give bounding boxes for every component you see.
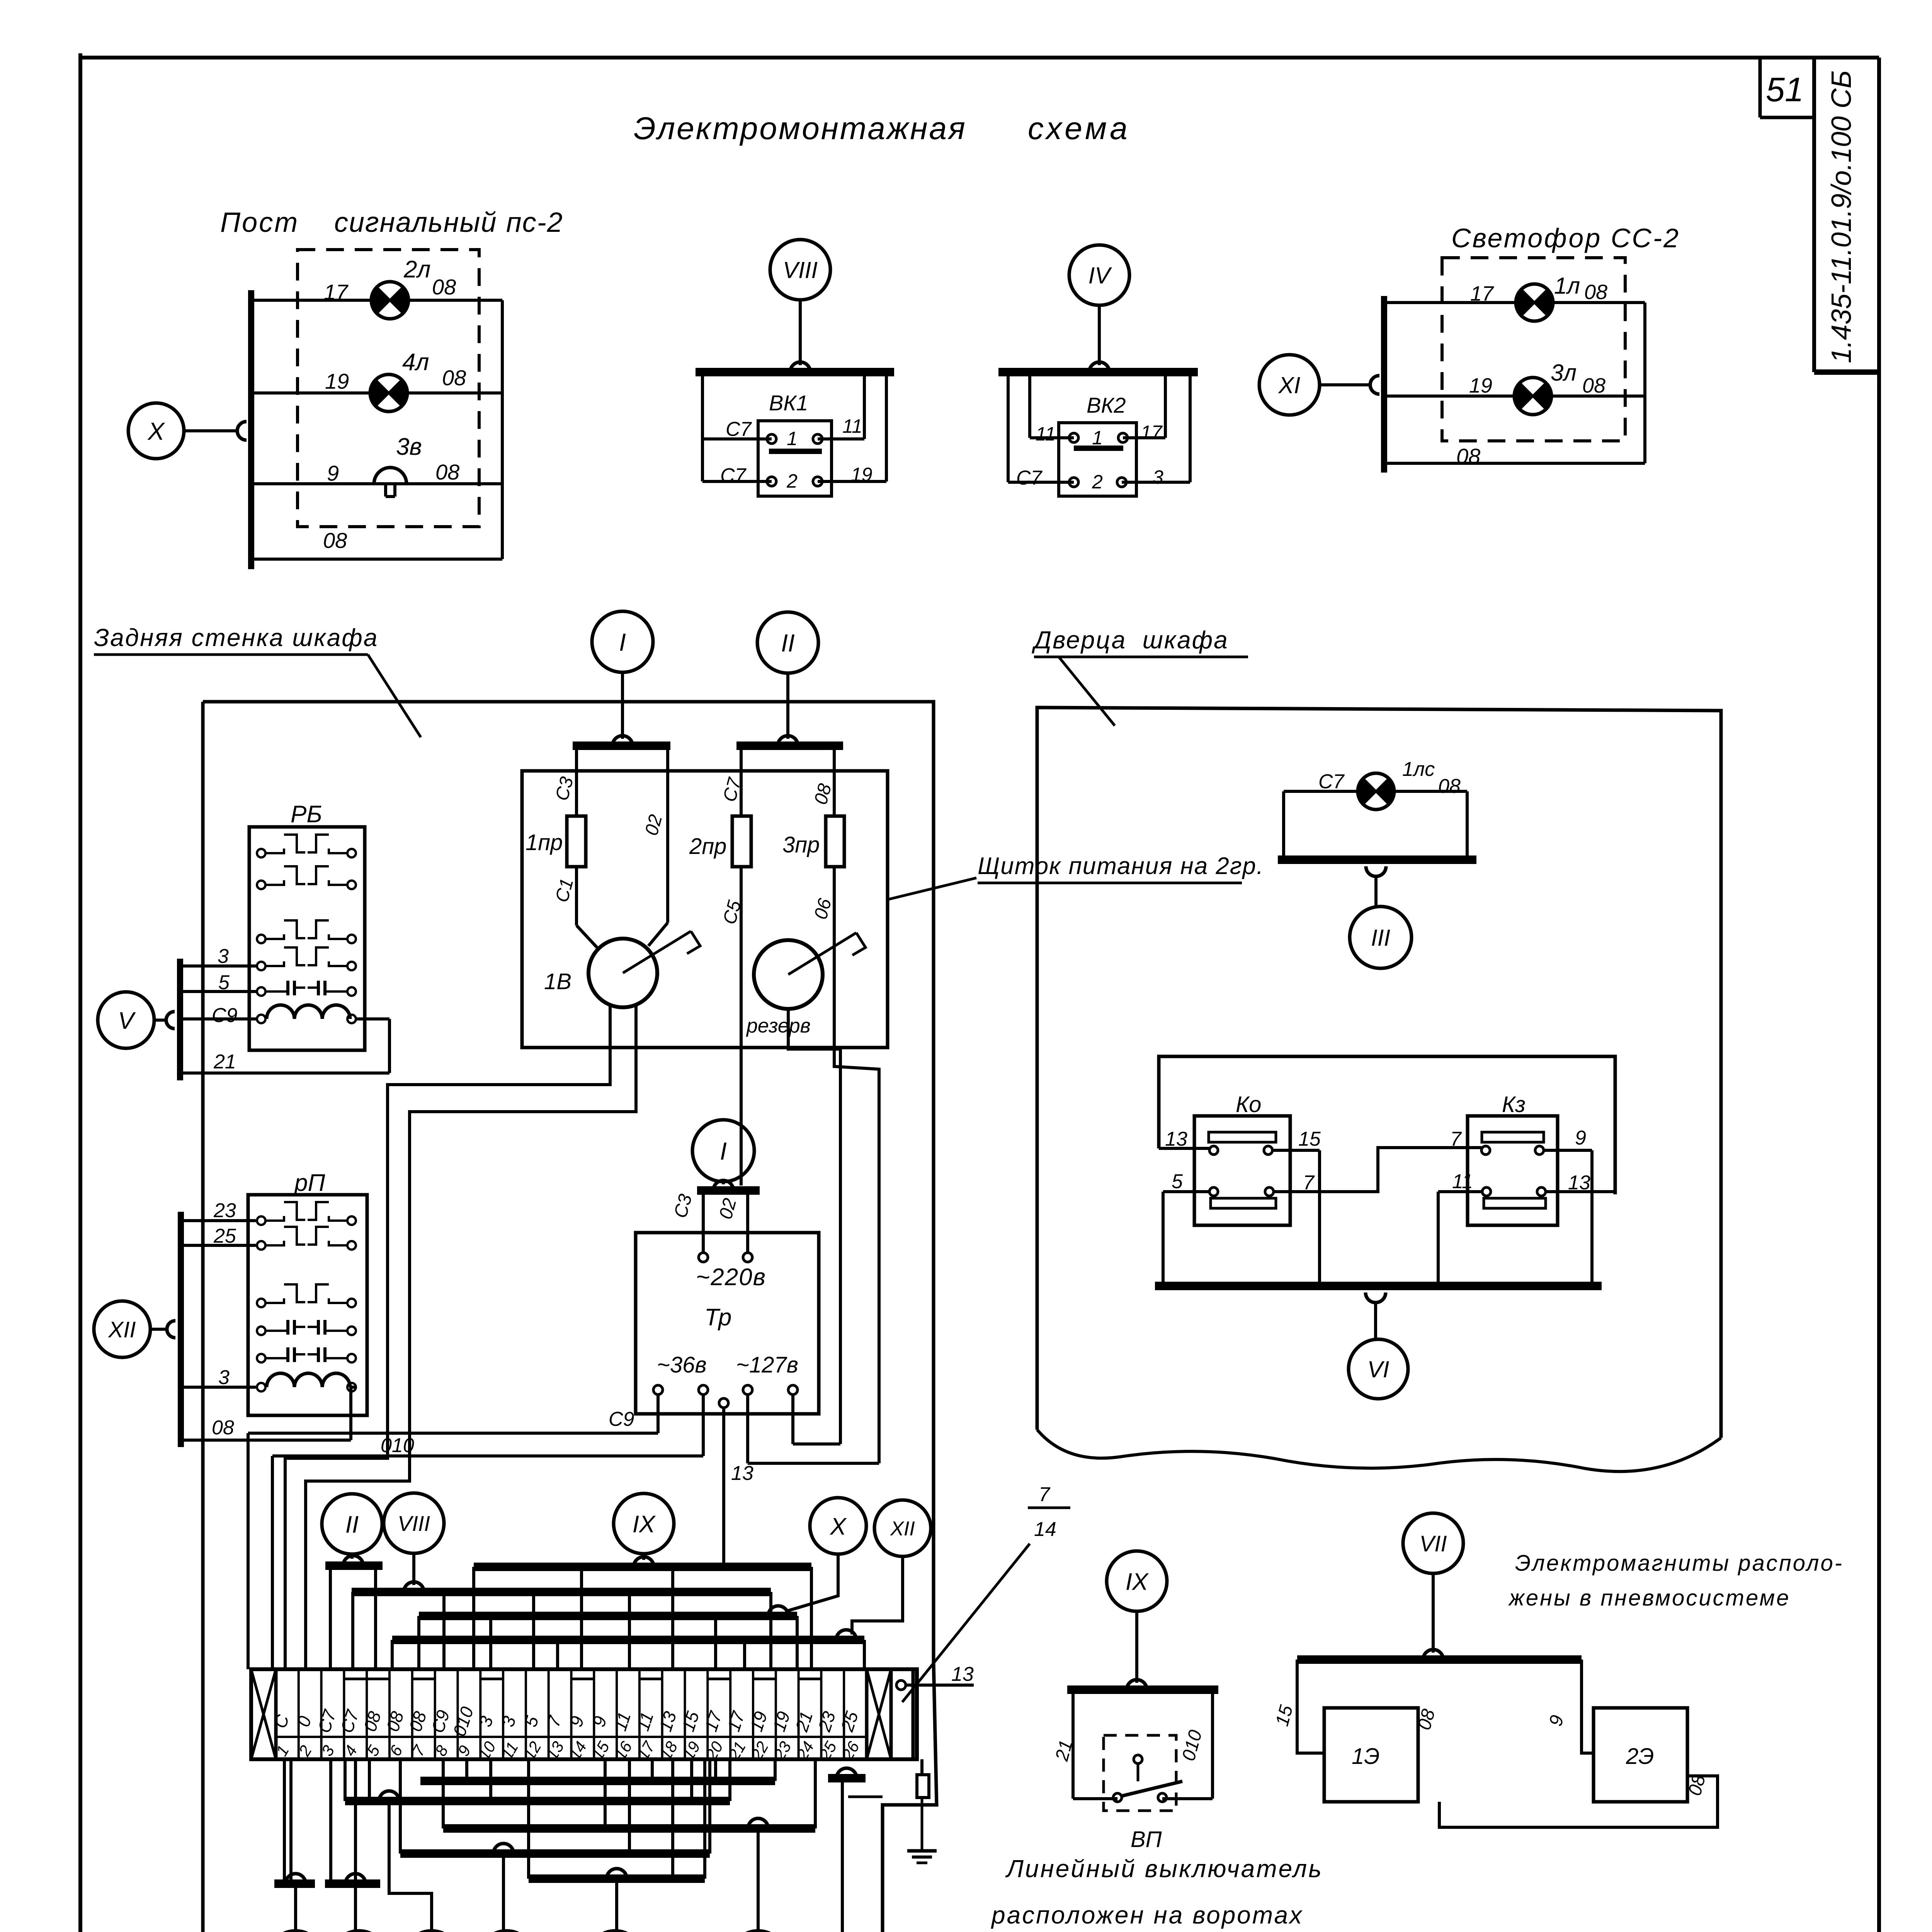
svg-text:ВК2: ВК2: [1087, 393, 1126, 417]
svg-text:VII: VII: [1420, 1531, 1447, 1556]
lamp 3Л: [1514, 378, 1551, 415]
switch BK1 outline: [701, 372, 704, 481]
wire II to bar: [350, 1554, 354, 1559]
fuse 3пр: [833, 746, 836, 816]
ВП contacts: [1134, 1755, 1142, 1764]
node VII (solenoids): [1403, 1513, 1463, 1573]
svg-text:С7: С7: [1016, 467, 1043, 489]
wire right vertical: [501, 300, 504, 559]
transformer box Тр: [636, 1233, 819, 1414]
Ко top contact: [1209, 1132, 1276, 1142]
wire резерв down: [788, 1009, 840, 1444]
svg-text:1лс: 1лс: [1402, 758, 1435, 781]
transformer secondary terminals: [653, 1385, 663, 1395]
wire С9: [180, 1017, 257, 1020]
svg-text:17: 17: [1470, 282, 1494, 305]
svg-text:II: II: [781, 629, 795, 657]
wire XI to bus: [1320, 383, 1371, 386]
dashed enclosure СС-2: [1442, 258, 1625, 441]
solenoid 1Э: [1324, 1708, 1418, 1802]
svg-text:I: I: [619, 628, 626, 656]
wire 9 to 2Э: [1582, 1660, 1594, 1753]
wire 25: [181, 1244, 256, 1247]
lamp 1ЛС: [1358, 773, 1394, 810]
wire to node V: [757, 1828, 760, 1931]
wire X to bus: [184, 429, 238, 432]
svg-text:С7: С7: [720, 464, 747, 487]
svg-text:08: 08: [1456, 444, 1480, 468]
wire to node XI: [841, 1778, 844, 1932]
wire VIII to bar: [412, 1553, 415, 1585]
wire 08: [181, 1439, 351, 1442]
wire 3: [180, 964, 257, 968]
wire IX to ВП bar: [1135, 1611, 1138, 1683]
wire bell 3В row: [251, 482, 502, 485]
svg-text:11: 11: [1036, 423, 1056, 445]
svg-text:Пост: Пост: [220, 207, 299, 238]
collector bar VIII: [352, 1588, 771, 1596]
svg-text:9: 9: [327, 461, 339, 485]
svg-text:сигнальный: сигнальный: [334, 207, 497, 238]
svg-text:14: 14: [1034, 1518, 1056, 1541]
cabinet door box: [1037, 707, 1721, 1438]
wire 1В bottom right: [306, 1005, 636, 1669]
mounting bar ВП: [1067, 1685, 1218, 1694]
svg-text:ХII: ХII: [890, 1518, 915, 1540]
node VI: [587, 1931, 644, 1932]
wire to node IV: [389, 1801, 432, 1931]
wire to node VI: [1374, 1303, 1377, 1339]
svg-text:1л: 1л: [1554, 273, 1580, 299]
svg-text:расположен на воротах: расположен на воротах: [991, 1901, 1303, 1929]
svg-text:17: 17: [1141, 422, 1163, 443]
solenoid feed bar: [1297, 1655, 1582, 1664]
svg-text:С7: С7: [1318, 770, 1345, 793]
svg-text:3пр: 3пр: [782, 832, 820, 857]
wire X to bar: [786, 1554, 838, 1611]
wire 5 Ко down: [1163, 1190, 1209, 1193]
wire to node III: [1374, 876, 1378, 906]
svg-text:15: 15: [1298, 1128, 1321, 1150]
svg-text:~36в: ~36в: [657, 1352, 707, 1378]
wire 15 to 1Э: [1297, 1660, 1324, 1753]
ground fuse element: [917, 1775, 929, 1798]
collector bar IX: [474, 1563, 811, 1571]
Ко bottom contact: [1211, 1198, 1276, 1208]
wire bottom 08 row: [1384, 462, 1645, 465]
wire 010 out: [702, 1395, 705, 1456]
wire 13 Ко: [1159, 1147, 1209, 1150]
wire 23: [181, 1219, 256, 1222]
wire VIII to BK1: [799, 300, 802, 365]
wire 7 crossover: [1274, 1148, 1481, 1192]
svg-text:5: 5: [1172, 1170, 1183, 1193]
svg-text:08: 08: [1582, 374, 1605, 397]
collector bar below-2: [345, 1797, 730, 1805]
wire II down: [786, 673, 789, 739]
svg-text:IХ: IХ: [633, 1511, 656, 1537]
svg-text:~127в: ~127в: [736, 1352, 798, 1378]
wire lamp 3Л row: [1384, 395, 1645, 398]
svg-text:19: 19: [1469, 374, 1492, 397]
ВП dashed box: [1104, 1735, 1176, 1811]
svg-text:5: 5: [218, 971, 230, 994]
svg-text:1Э: 1Э: [1352, 1744, 1380, 1769]
svg-text:жены в пневмосистеме: жены в пневмосистеме: [1508, 1585, 1791, 1611]
svg-text:08: 08: [1438, 775, 1461, 798]
ВП switch frame: [1071, 1690, 1075, 1799]
Кз bottom contact: [1484, 1198, 1546, 1208]
wire 127v out right: [746, 1395, 749, 1463]
wire 9 Кз down: [1544, 1149, 1592, 1152]
wire to node VII: [502, 1854, 505, 1931]
terminal strip right X end: [867, 1669, 891, 1759]
switch 1В circle: [577, 925, 597, 947]
wire IV to BK2: [1098, 305, 1101, 365]
node V: [98, 992, 154, 1048]
svg-text:~220в: ~220в: [696, 1264, 766, 1291]
wire 13 out: [722, 1408, 725, 1567]
switch резерв circle: [754, 940, 823, 1009]
fuse 1ПР: [575, 746, 578, 816]
collector bar A: [274, 1879, 315, 1888]
jumper ticks on cells: [345, 1678, 366, 1680]
wire lamp 1Л row: [1384, 301, 1645, 304]
Кз top contact: [1482, 1132, 1544, 1142]
door bar: [1278, 855, 1476, 864]
power panel box Щиток: [522, 771, 888, 1048]
svg-text:ВП: ВП: [1131, 1827, 1162, 1852]
node VII: [478, 1931, 535, 1932]
collector bar below-3: [443, 1824, 815, 1833]
svg-text:08: 08: [432, 275, 456, 299]
node А: [267, 1931, 324, 1932]
BK1 contact 2: [702, 480, 772, 483]
wire stubs strip to lower bars: [465, 1759, 468, 1781]
node II (top): [757, 612, 818, 673]
node VI (door): [1349, 1339, 1408, 1399]
document number strip: [1814, 369, 1879, 375]
door box torn bottom edge: [1037, 1430, 1721, 1471]
wire 13 Кз: [1546, 1190, 1615, 1193]
wire 02 stub: [746, 1190, 749, 1253]
wire С3 stub: [702, 1190, 705, 1253]
svg-text:V: V: [118, 1007, 136, 1034]
cabinet back wall box: [203, 702, 934, 1662]
svg-text:21: 21: [213, 1051, 236, 1073]
BK2 contact 2: [1008, 481, 1074, 484]
node XII (above strip): [874, 1500, 931, 1556]
svg-text:1: 1: [1092, 427, 1103, 449]
collector bar III: [325, 1879, 380, 1888]
svg-text:19: 19: [325, 369, 349, 393]
svg-text:08: 08: [1584, 281, 1607, 304]
svg-text:С7: С7: [726, 418, 752, 440]
node IV: [403, 1931, 460, 1932]
leader 13: [902, 1544, 1030, 1702]
svg-text:VI: VI: [1367, 1357, 1389, 1383]
wire to node III: [354, 1884, 357, 1931]
svg-text:17: 17: [324, 280, 349, 304]
bus bar СС-2: [1381, 296, 1387, 473]
svg-text:08: 08: [442, 366, 466, 390]
svg-text:2: 2: [1092, 471, 1103, 493]
svg-text:Задняя стенка шкафа: Задняя стенка шкафа: [94, 624, 378, 651]
switch BK2 outline: [1007, 372, 1010, 482]
svg-text:19: 19: [851, 464, 872, 485]
leader to door box: [1059, 657, 1115, 726]
svg-text:IХ: IХ: [1126, 1568, 1149, 1595]
leader to cabinet box: [368, 655, 421, 737]
wire to ground: [921, 1798, 923, 1851]
wire right vertical: [1643, 303, 1646, 463]
node I (top): [592, 611, 653, 672]
ground symbol: [907, 1849, 937, 1853]
solenoid 2Э: [1594, 1708, 1687, 1802]
wire 3: [181, 1386, 256, 1389]
svg-text:пс-2: пс-2: [506, 207, 563, 238]
svg-text:С9: С9: [212, 1004, 237, 1027]
wire exit bottom: [882, 1805, 883, 1932]
svg-text:13: 13: [951, 1663, 974, 1685]
node IV (top): [1069, 245, 1129, 305]
svg-text:2: 2: [786, 470, 798, 492]
feed bar 2: [736, 742, 843, 750]
node X: [128, 403, 184, 459]
collector bar XII: [392, 1636, 864, 1644]
svg-text:рП: рП: [294, 1170, 325, 1196]
node VIII (top): [770, 240, 830, 300]
svg-text:010: 010: [381, 1434, 414, 1457]
svg-text:2пр: 2пр: [689, 834, 726, 859]
collector bar XI: [828, 1774, 866, 1782]
wire С9 out: [656, 1395, 660, 1433]
svg-text:I: I: [720, 1137, 727, 1165]
relay bottom bus: [1155, 1282, 1602, 1290]
feed bar 1: [573, 742, 670, 750]
svg-text:ХII: ХII: [108, 1317, 136, 1342]
svg-text:VIII: VIII: [398, 1511, 430, 1536]
sheet number box 51: [1759, 58, 1762, 117]
terminal cells: [275, 1669, 277, 1759]
wire 21: [180, 1071, 389, 1075]
svg-text:7: 7: [1039, 1483, 1051, 1506]
wire to node A: [294, 1884, 297, 1931]
wire stubs bars to strip: [329, 1566, 332, 1669]
lamp 2Л: [371, 282, 408, 319]
mounting bar BK1: [696, 368, 894, 376]
svg-text:II: II: [345, 1511, 359, 1538]
svg-text:2Э: 2Э: [1626, 1744, 1654, 1769]
svg-text:Х: Х: [829, 1513, 847, 1540]
svg-text:Ко: Ко: [1236, 1092, 1261, 1117]
wire 11 Кз down: [1438, 1190, 1482, 1193]
node IX (above strip): [614, 1493, 674, 1554]
svg-text:11: 11: [1452, 1170, 1473, 1193]
svg-text:Щиток питания на 2гр.: Щиток питания на 2гр.: [978, 853, 1264, 879]
svg-text:Линейный выключатель: Линейный выключатель: [1005, 1855, 1323, 1883]
lamp 1Л: [1516, 284, 1553, 321]
collector bar below-4: [400, 1849, 710, 1858]
svg-text:схема: схема: [1028, 111, 1131, 146]
collector bar below-5: [529, 1874, 705, 1883]
svg-text:51: 51: [1766, 70, 1804, 109]
wire I down: [621, 672, 624, 739]
node X (above strip): [810, 1498, 866, 1554]
svg-text:25: 25: [213, 1225, 236, 1247]
collector bar X: [419, 1612, 797, 1620]
wire 36v out right: [791, 1395, 794, 1444]
terminal strip body: [251, 1669, 917, 1759]
svg-text:Дверца шкафа: Дверца шкафа: [1032, 626, 1229, 654]
svg-text:резерв: резерв: [746, 1015, 811, 1037]
svg-text:3: 3: [218, 945, 229, 968]
BK1 contact 1: [702, 437, 772, 440]
bus bar X (post): [248, 290, 254, 569]
svg-text:3л: 3л: [1551, 360, 1577, 386]
border frame right: [1877, 58, 1881, 1932]
lamp 1ЛС circuit wires: [1284, 790, 1358, 793]
dashed enclosure ПС-2: [298, 250, 479, 527]
wire strip to ground fuse: [920, 1759, 923, 1775]
wire bottom 08: [251, 558, 502, 561]
transformer feed bar: [697, 1186, 760, 1195]
node XI (left): [1259, 355, 1320, 415]
svg-text:1пр: 1пр: [526, 830, 563, 855]
svg-text:Кз: Кз: [1502, 1092, 1526, 1117]
wire 5: [180, 990, 257, 993]
terminal strip left X end: [251, 1669, 276, 1759]
svg-text:08: 08: [323, 528, 347, 553]
svg-text:Тр: Тр: [704, 1304, 731, 1331]
node III: [330, 1931, 388, 1932]
border frame left: [78, 53, 82, 1932]
svg-text:08: 08: [212, 1417, 234, 1439]
svg-text:08: 08: [435, 460, 459, 484]
wire 15 Ко down: [1272, 1149, 1320, 1152]
fuse 2пр: [740, 746, 743, 816]
node III (door): [1350, 906, 1412, 968]
relay Ко box: [1194, 1116, 1290, 1225]
svg-text:1: 1: [787, 428, 798, 449]
svg-text:III: III: [1371, 925, 1390, 951]
svg-text:ХI: ХI: [1278, 372, 1301, 398]
collector bar below-1: [420, 1777, 775, 1785]
collector bar II: [325, 1561, 383, 1570]
leader Щиток питания: [888, 878, 976, 900]
svg-text:VIII: VIII: [783, 257, 818, 283]
node VIII (above strip): [384, 1493, 444, 1553]
svg-text:Электромонтажная: Электромонтажная: [634, 111, 967, 146]
mounting bar BK2: [998, 368, 1198, 376]
node V: [730, 1931, 787, 1932]
svg-text:13: 13: [731, 1462, 753, 1485]
node II (above strip): [322, 1494, 382, 1554]
wire V to bus: [154, 1019, 168, 1022]
relay group outer box: [1159, 1056, 1615, 1194]
wire lamp 2Л row: [251, 299, 502, 302]
bell 3В: [374, 468, 406, 484]
svg-text:4л: 4л: [402, 349, 429, 376]
wire IX to bar: [642, 1554, 645, 1560]
svg-text:9: 9: [1575, 1127, 1586, 1149]
svg-text:2л: 2л: [403, 256, 430, 283]
wire lamp 4Л row: [251, 391, 502, 395]
wire to node VI: [615, 1879, 618, 1931]
svg-text:ВК1: ВК1: [769, 391, 808, 415]
svg-text:1В: 1В: [544, 969, 571, 994]
wire I to bar: [722, 1182, 725, 1184]
node I (transformer): [692, 1120, 754, 1182]
svg-text:Светофор СС-2: Светофор СС-2: [1451, 223, 1680, 253]
svg-text:Х: Х: [147, 417, 165, 445]
svg-text:3в: 3в: [396, 434, 422, 460]
svg-text:С9: С9: [609, 1408, 634, 1430]
bus bar V: [177, 959, 183, 1080]
relay Кз box: [1468, 1116, 1558, 1225]
lamp 4Л: [370, 374, 407, 412]
wire 1В bottom left: [285, 1005, 610, 1669]
border frame top: [80, 56, 1879, 60]
svg-text:3: 3: [1153, 466, 1163, 488]
wire exit to fan cabinet: [848, 1796, 883, 1798]
solenoid bottom wire: [1439, 1776, 1718, 1827]
wire XII to bus: [150, 1328, 168, 1331]
node XII: [94, 1301, 150, 1357]
svg-text:3: 3: [218, 1366, 230, 1389]
BK2 contact 1: [1030, 436, 1074, 439]
wire VII to bar: [1432, 1573, 1435, 1653]
svg-text:РБ: РБ: [291, 801, 322, 828]
wire XII to bar: [852, 1556, 903, 1634]
svg-text:IV: IV: [1088, 263, 1112, 289]
bus bar XII: [178, 1212, 184, 1447]
svg-text:1.435-11.01.9/о.100 СБ: 1.435-11.01.9/о.100 СБ: [1826, 70, 1857, 363]
svg-text:11: 11: [842, 415, 862, 437]
svg-text:Электромагниты располо-: Электромагниты располо-: [1515, 1551, 1844, 1576]
node IX (near ВП): [1107, 1551, 1167, 1611]
terminal 13 takeoff circle: [896, 1680, 906, 1690]
svg-text:23: 23: [213, 1199, 236, 1222]
